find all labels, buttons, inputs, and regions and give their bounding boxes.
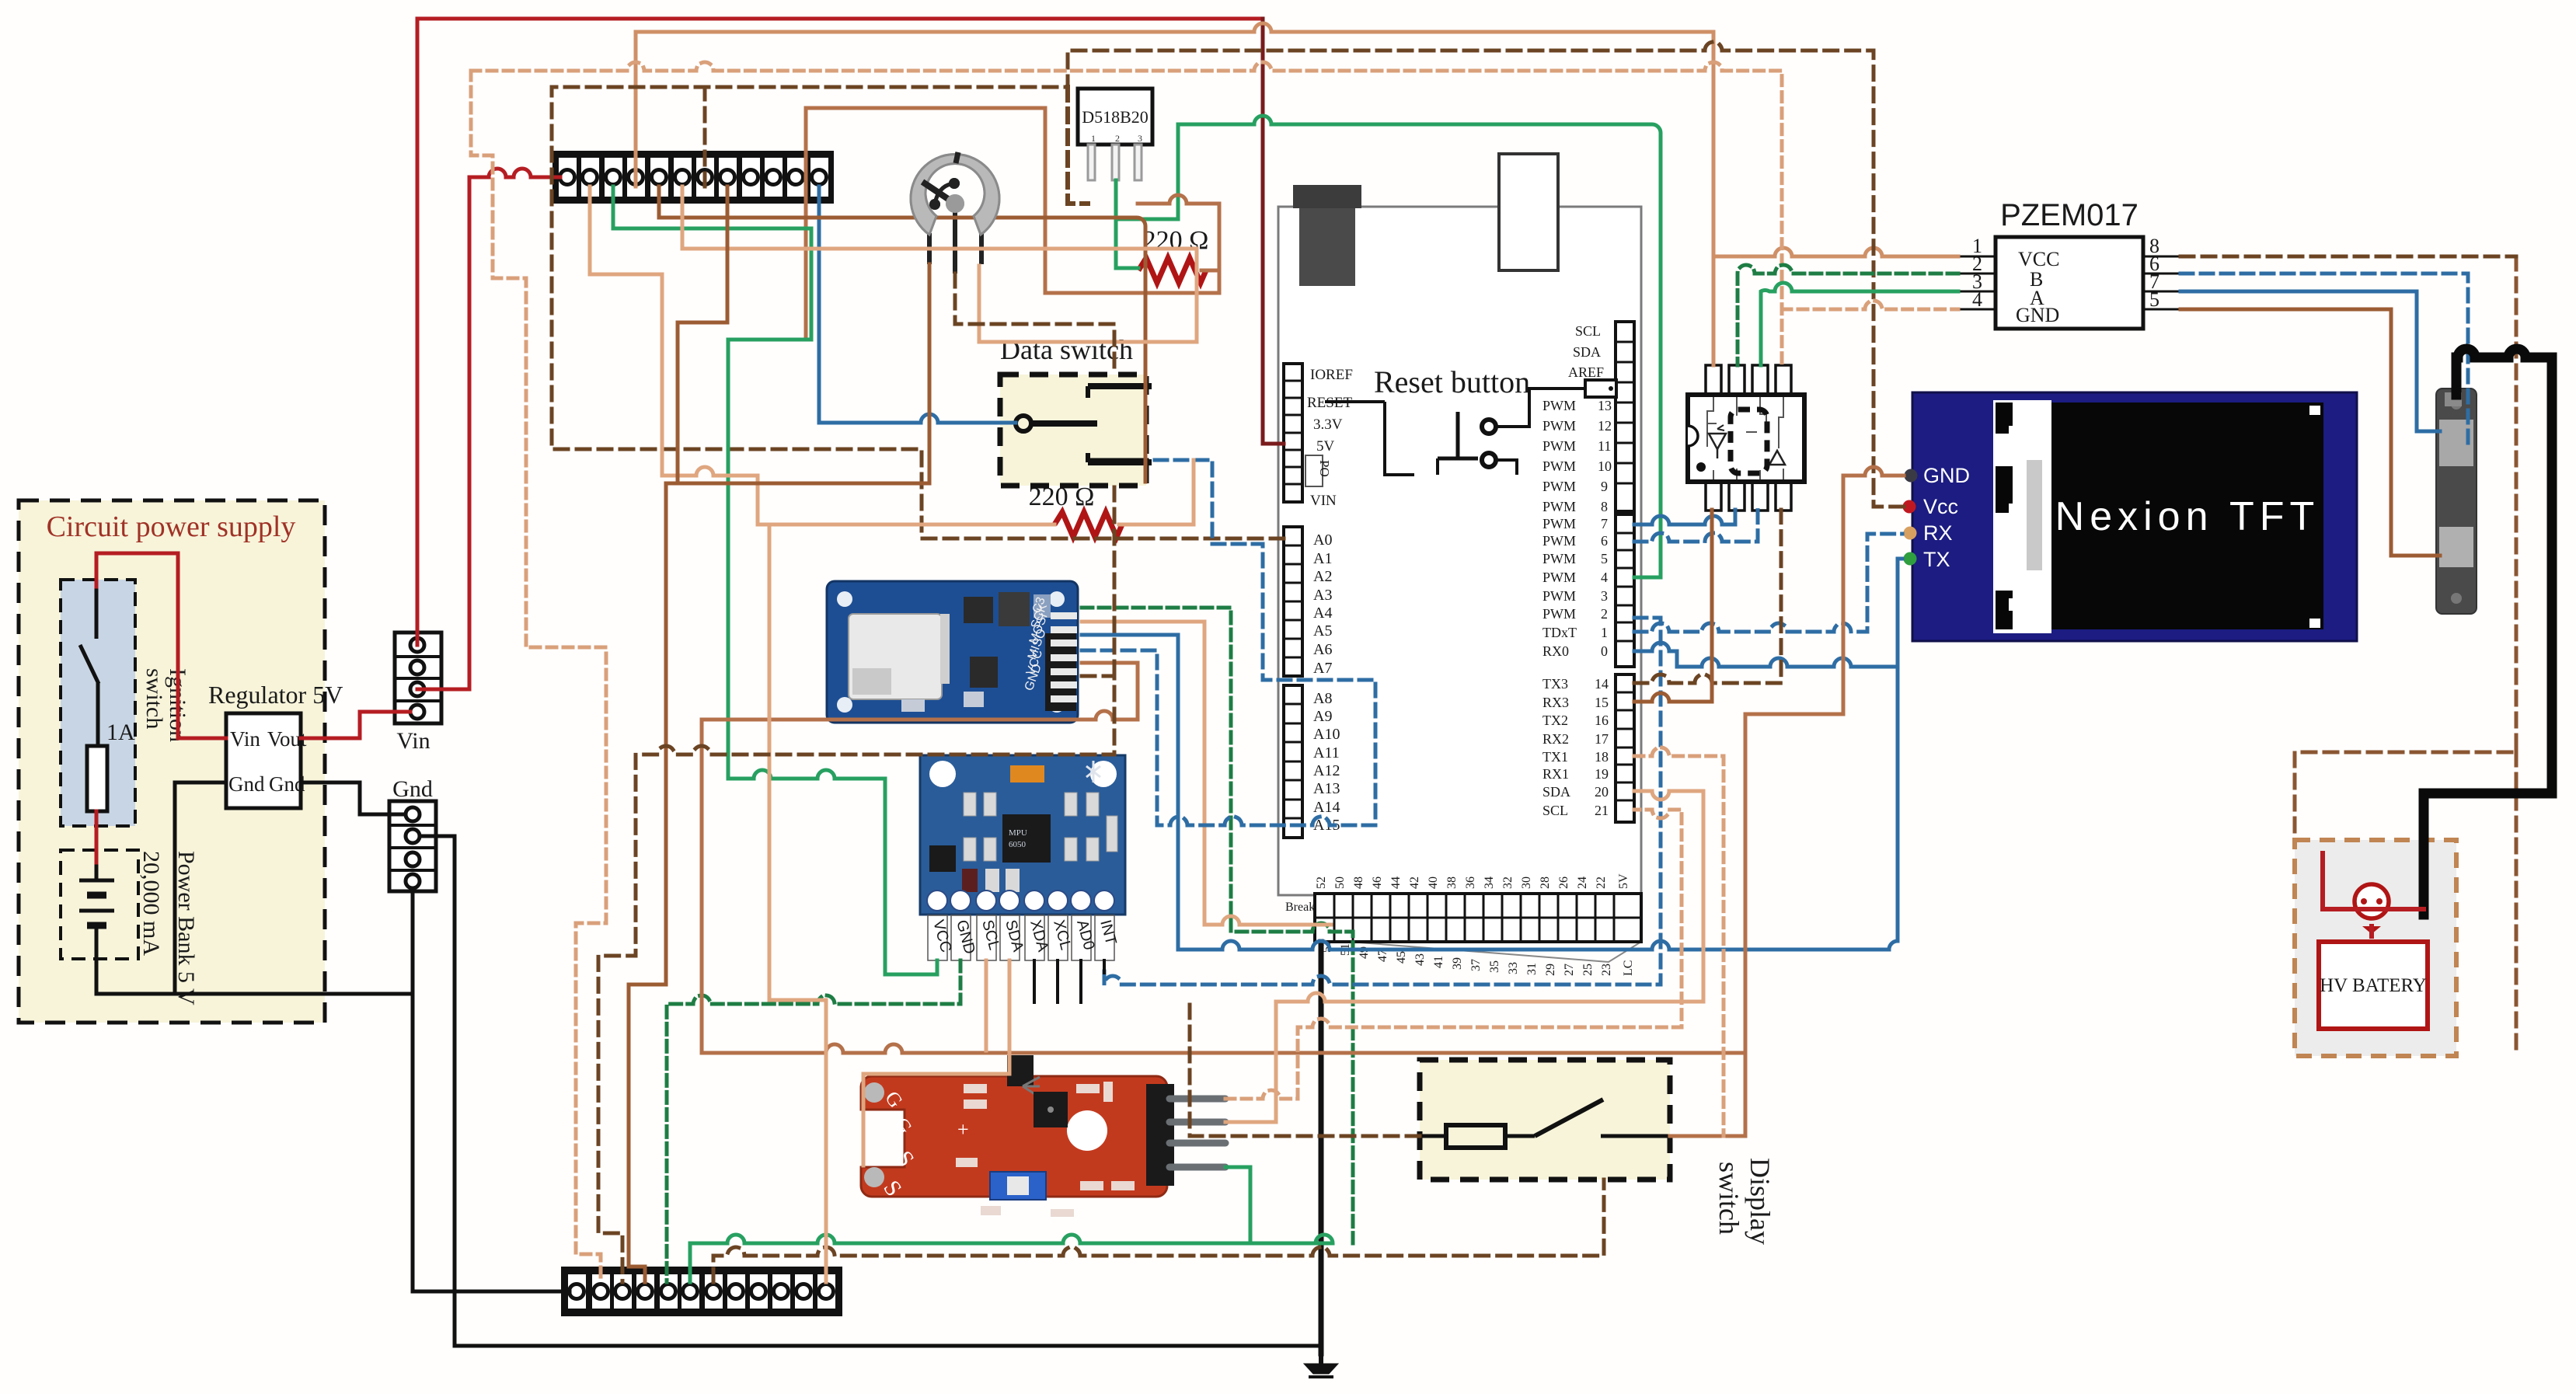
Arduino Mega board [1278,154,1641,942]
wire red fuse to battery [95,811,99,863]
svg-text:14: 14 [1595,676,1609,692]
svg-text:PWM: PWM [1542,516,1576,531]
svg-text:LC: LC [1622,960,1635,976]
flame sensor module [861,1055,1225,1217]
Arduino bottom double header [1285,873,1641,976]
bottom terminal strip [563,1269,840,1314]
shunt [2436,389,2477,614]
wire blue dashed PWM2 to MPU INT [1104,618,1661,985]
wire brown display switch right stub [1190,1004,1420,1136]
wire green top strip c3 to MPU VCC [613,186,937,974]
svg-text:TX3: TX3 [1542,676,1568,692]
wire dark red 5V drop [1263,19,1284,444]
svg-text:PWM: PWM [1542,398,1576,413]
wire blue dashed TDxT1 to Nexion RX [1634,534,1902,632]
svg-text:switch: switch [141,668,167,729]
svg-text:AREF: AREF [1568,364,1604,380]
svg-text:TX: TX [1923,548,1950,571]
wire blue dashed PWM6 to opto B3 [1634,510,1758,542]
svg-text:27: 27 [1563,964,1576,976]
wire red Vout to Vin terminal c4 [301,712,410,738]
svg-text:Display: Display [1745,1158,1776,1245]
svg-text:PWM: PWM [1542,479,1576,494]
battery dashed box [61,850,138,959]
SD card module [827,581,1078,723]
svg-text:28: 28 [1539,876,1552,889]
wire peach dashed bus to opto T4 / PZEM GND [471,62,1782,1282]
MPU6050 module [920,755,1125,960]
svg-text:35: 35 [1488,960,1501,973]
svg-text:36: 36 [1464,876,1477,889]
svg-text:44: 44 [1389,876,1403,889]
svg-text:50: 50 [1333,876,1347,889]
svg-text:4: 4 [1972,288,1982,311]
svg-text:31: 31 [1525,963,1539,975]
wire blue dashed PZEM6 to shunt top [2180,274,2468,444]
svg-text:GND: GND [2016,304,2059,326]
svg-text:5: 5 [1601,551,1608,566]
wire peach flame pin2 to SDA20 [1225,791,1703,1122]
Gnd terminal block [389,776,436,891]
svg-text:A4: A4 [1313,605,1332,622]
svg-text:33: 33 [1507,962,1520,974]
svg-text:9: 9 [1601,479,1608,494]
resistor 220 ohm (data switch) [1029,483,1122,537]
svg-text:43: 43 [1413,953,1427,966]
svg-text:Reset button: Reset button [1374,364,1530,399]
wire blue SD pin3 to Nexion TX bus [1082,559,1902,950]
svg-text:A10: A10 [1313,726,1340,743]
svg-text:RX: RX [1923,521,1953,545]
svg-text:RX0: RX0 [1542,643,1569,659]
svg-text:A12: A12 [1313,762,1340,779]
svg-text:Gnd: Gnd [392,776,433,802]
Arduino left header IOREF-VIN [1284,364,1353,509]
Arduino right header SCL-PWM8 [1542,322,1634,514]
svg-text:SDA: SDA [1542,784,1570,800]
svg-text:Break: Break [1285,901,1315,914]
power bank label [138,851,199,1005]
svg-text:SDA: SDA [1573,344,1601,360]
svg-text:RX1: RX1 [1542,766,1569,782]
wire dark dashed DS18B20 box [1068,87,1088,204]
wire thick black shunt to HV battery [2424,349,2552,915]
Nexion TFT display [1903,392,2358,641]
wire dark dashed bus A0 to Nexion Vcc and HV battery [552,42,1904,538]
svg-text:6050: 6050 [1009,840,1027,849]
Arduino left header A8-A15 [1284,685,1340,838]
svg-text:38: 38 [1445,876,1459,889]
data switch box [1000,334,1152,486]
wire brown dashed pot mid pin [955,274,1114,676]
svg-text:A11: A11 [1313,744,1340,761]
Vin terminal block [395,633,441,754]
PZEM017 box [1958,198,2180,329]
Arduino right header TX3-SCL21 [1542,674,1634,822]
wire red HV battery motor loop [2323,853,2424,936]
svg-text:Regulator 5V: Regulator 5V [208,681,343,709]
svg-text:11: 11 [1598,438,1611,454]
wire blue dashed SD pin4 to A8 box and data switch [1082,460,1375,825]
svg-text:16: 16 [1595,713,1609,728]
svg-text:20,000 mA: 20,000 mA [138,851,164,956]
svg-text:RX2: RX2 [1542,731,1569,747]
ground symbol [1304,1354,1338,1377]
svg-text:+: + [957,1118,969,1141]
svg-text:Vin: Vin [396,728,430,754]
wire green dashed SD pin1 [1082,608,1353,1243]
svg-text:5V: 5V [1316,438,1335,455]
svg-text:TDxT: TDxT [1542,625,1577,640]
svg-text:7: 7 [1601,516,1608,531]
svg-text:3.3V: 3.3V [1313,416,1343,433]
svg-text:Vcc: Vcc [1923,495,1958,518]
svg-text:Power Bank 5 V: Power Bank 5 V [173,851,199,1005]
svg-text:1A: 1A [106,720,135,745]
svg-text:PWM: PWM [1542,588,1576,604]
svg-text:3: 3 [1138,133,1142,144]
svg-text:GND: GND [1923,464,1970,487]
svg-text:RX3: RX3 [1542,695,1569,710]
svg-text:8: 8 [1601,499,1608,514]
wire red Vin terminal to top bus [417,19,1263,645]
Arduino left header A0-A7 [1284,527,1332,677]
svg-text:41: 41 [1432,956,1445,968]
svg-text:34: 34 [1483,876,1496,889]
wire black MPU tag stubs [1034,960,1104,1002]
wire black data switch bottom contact [1091,458,1147,462]
wire peach MPU SDA drop [863,960,1009,1166]
wire blue top strip c12 to data switch [819,186,1016,423]
svg-text:4: 4 [1601,570,1608,585]
svg-text:29: 29 [1544,964,1557,976]
svg-text:24: 24 [1576,876,1589,889]
svg-text:5V: 5V [1617,873,1630,889]
svg-text:48: 48 [1352,876,1365,889]
potentiometer overlay [911,152,999,235]
svg-text:10: 10 [1598,458,1612,474]
wire green dashed PZEM B to opto T2 [1738,265,1958,365]
circuit power supply box [19,500,325,1023]
svg-text:PWM: PWM [1542,533,1576,549]
svg-text:PWM: PWM [1542,606,1576,622]
wire brown dashed circle7 bottom bus to display switch [713,1180,1604,1282]
svg-text:A6: A6 [1313,641,1332,658]
svg-text:12: 12 [1598,418,1612,434]
svg-text:switch: switch [1713,1162,1745,1235]
wire peach top bus circle4 to PZEM VCC and opto pin T1 [636,23,1713,365]
wire blue PZEM7 to shunt [2180,291,2440,431]
svg-text:PWM: PWM [1542,499,1576,514]
svg-text:A9: A9 [1313,708,1332,725]
svg-text:1: 1 [1091,133,1096,144]
svg-text:3: 3 [1601,588,1608,604]
wire brown PZEM5 to shunt bottom [2180,309,2440,556]
svg-text:Gnd: Gnd [228,772,265,796]
svg-text:13: 13 [1598,398,1612,413]
wire peach SD pin2 to arduino bottom header [1082,622,1331,925]
svg-text:32: 32 [1501,876,1515,889]
wire green solid PZEM A to opto T3 [1761,283,1958,365]
wire peach dashed TX1 18 drop [1634,748,1724,1136]
svg-text:TX1: TX1 [1542,749,1568,765]
wire black Gnd c2 long bottom [420,836,1321,1346]
wire brown dashed pin14 to opto B4 [1634,510,1781,683]
wire brown RX3 15 to opto B1 [1634,510,1712,702]
wire black regulator gnd-right to Gnd terminal c1 [301,782,406,814]
svg-text:2: 2 [1115,133,1120,144]
wire black arduino header to ground symbol [1319,942,1324,1354]
svg-text:37: 37 [1469,959,1483,971]
svg-text:20: 20 [1595,784,1609,800]
svg-text:MPU: MPU [1009,828,1027,838]
wire black regulator gnd-left to battery minus [175,782,413,994]
svg-text:HV BATERY: HV BATERY [2320,975,2427,996]
svg-text:22: 22 [1595,876,1608,889]
ignition switch symbol [80,584,99,746]
wire peach PZEM VCC stub [1713,248,1958,256]
resistor 220 ohm (DS18B20) [1138,226,1208,283]
svg-text:A2: A2 [1313,568,1332,585]
svg-text:42: 42 [1408,876,1421,889]
svg-text:1: 1 [1601,625,1608,640]
wire black battery minus stub [96,992,175,996]
wire brown top strip c5 riser [659,186,1145,482]
svg-text:45: 45 [1395,951,1408,964]
svg-text:SCL: SCL [1575,323,1601,339]
rotary potentiometer [911,152,999,274]
wire brown dashed SD pin6 to INT and bottom strip c3 [598,676,1114,1282]
svg-text:PO: PO [1317,460,1332,477]
svg-text:2: 2 [1601,606,1608,622]
svg-text:5: 5 [2149,288,2159,311]
battery symbol [79,855,114,994]
Arduino right header PWM7-RX0 [1542,514,1634,667]
wire peach dashed PZEM GND stub [1782,301,1958,309]
DS18B20 sensor [1078,89,1152,180]
wire peach dashed flame pin1 to SCL21 [1225,810,1682,1099]
svg-text:21: 21 [1595,803,1609,818]
svg-text:18: 18 [1595,749,1609,765]
svg-text:17: 17 [1595,731,1609,747]
svg-text:A7: A7 [1313,660,1332,677]
svg-text:15: 15 [1595,695,1609,710]
svg-text:PZEM017: PZEM017 [2000,198,2139,232]
wire peach MPU SCL drop [985,960,988,1051]
display switch box [1420,1060,1776,1245]
svg-text:A3: A3 [1313,587,1332,604]
svg-text:6: 6 [1601,533,1608,549]
svg-text:PWM: PWM [1542,438,1576,454]
svg-text:A14: A14 [1313,799,1340,816]
svg-text:25: 25 [1581,964,1595,976]
svg-text:26: 26 [1557,876,1570,889]
svg-text:D518B20: D518B20 [1082,107,1149,127]
wire brown Nexion GND to display switch and long bottom bus [702,467,1904,1136]
svg-text:PWM: PWM [1542,570,1576,585]
wire peach resistor2 branch to bottom strip c12 [769,524,826,1282]
wire dark dashed PZEM8 [2180,255,2516,259]
power jack [1499,154,1558,270]
svg-text:46: 46 [1371,876,1384,889]
svg-text:Vin: Vin [230,727,260,751]
svg-text:52: 52 [1315,876,1328,889]
wire dark dashed to HV box corner [2295,256,2516,1053]
wire green DS18B20 data to PWM4 [1116,116,1661,577]
svg-text:A8: A8 [1313,690,1332,707]
svg-text:23: 23 [1600,964,1613,976]
wire brown top strip c8 to bottom strip c4 [629,186,929,1282]
wire peach resistor2 to data switch [1091,460,1194,524]
svg-text:TX2: TX2 [1542,713,1568,728]
wire red Vin3 to top strip c1 [417,169,560,689]
svg-text:Circuit power supply: Circuit power supply [47,511,296,543]
svg-text:Nexion TFT: Nexion TFT [2055,494,2320,539]
svg-text:A0: A0 [1313,531,1332,549]
svg-text:IOREF: IOREF [1310,367,1353,383]
wire blue RX0 to TX junction [1634,643,1898,667]
svg-text:A5: A5 [1313,622,1332,639]
svg-text:VCC: VCC [2018,248,2059,270]
svg-text:A13: A13 [1313,780,1340,797]
Reset button [1325,364,1616,475]
wire green dashed MPU GND to bottom strip c5 [667,960,960,1282]
regulator 5V [208,681,343,808]
wire blue PWM7 to opto B2 [1634,510,1735,524]
top terminal strip [555,153,831,201]
svg-text:19: 19 [1595,766,1609,782]
svg-text:SCL: SCL [1542,803,1568,818]
svg-text:PWM: PWM [1542,418,1576,434]
wire peach top strip c6 to pot right pin [682,186,1197,342]
svg-text:VIN: VIN [1310,493,1337,509]
wire red ignition to regulator Vin [96,553,226,738]
svg-text:30: 30 [1520,876,1533,889]
optocoupler module [1688,365,1804,511]
wire green flame pin4 to bottom strip c6 [690,1167,1333,1282]
wire dark dashed circle7 riser [703,87,707,186]
svg-text:39: 39 [1451,957,1464,970]
wire black Gnd c4 to bottom strip c1 [413,888,570,1291]
svg-text:0: 0 [1601,643,1608,659]
svg-text:A1: A1 [1313,550,1332,567]
wire brown resistor1 to DS18B20 pin3 [806,108,1219,340]
wire peach top strip c2 to resistor2 [590,186,1054,524]
svg-text:40: 40 [1427,876,1440,889]
svg-text:PWM: PWM [1542,551,1576,566]
usb connector [1293,185,1361,208]
ignition switch box [61,580,190,826]
HV battery box [2295,840,2456,1056]
svg-text:PWM: PWM [1542,458,1576,474]
fuse 1A [87,720,135,811]
